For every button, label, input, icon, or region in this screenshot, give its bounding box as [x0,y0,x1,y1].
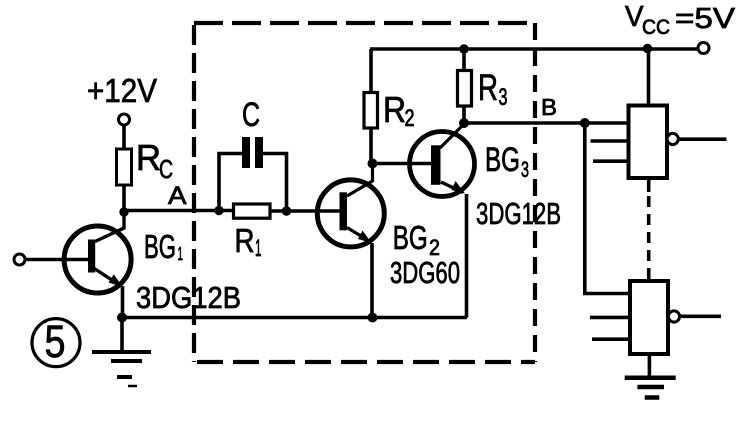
label BG2 [393,219,440,260]
dashed link U1 to U2 [647,178,651,281]
wire node B [464,121,628,125]
transistor BG1 [64,211,131,318]
terminal +12V [119,114,130,125]
gate U2 [590,281,721,354]
input terminal (BG1 base) [14,254,25,265]
junction R1/C right [282,206,291,215]
svg-text:3DG12B: 3DG12B [476,196,561,231]
junction BG2 emitter / rail [368,313,378,323]
junction R1/C left [214,206,223,215]
junction node B branch [580,118,590,128]
svg-text:BG: BG [393,219,428,256]
transistor BG3 [410,124,475,318]
label RC [136,137,173,184]
wire input to BG1 base [25,258,88,262]
label R2 [383,89,415,132]
ground (BG1) [92,318,151,387]
resistor RC [117,149,132,185]
bottom rail wire [122,316,467,320]
svg-text:R: R [383,89,406,130]
junction R3 bottom / BG3 collector / node B [459,118,469,128]
junction R2/BG2 collector/BG3 base [368,159,378,169]
label BG3 [485,141,529,182]
capacitor C branch wire right [260,154,287,212]
transistor BG2 [317,164,384,319]
wire node A to R1 [124,209,234,213]
gate U1 [591,106,727,179]
label R1 [235,222,262,262]
terminal Vcc [698,43,709,54]
svg-text:5: 5 [45,316,66,367]
svg-text:BG: BG [485,141,520,179]
svg-text:2: 2 [405,105,415,132]
wire R2 to junction [369,128,373,164]
wire +12V terminal to RC [122,125,126,149]
resistor R1 [234,204,271,218]
label R3 [478,67,508,111]
dashed box (circuit module outline) [194,23,535,362]
svg-text:R: R [235,222,255,259]
svg-text:1: 1 [178,244,184,264]
wire R1 to BG2 base [270,209,340,213]
svg-text:B: B [541,94,557,120]
svg-text:=5V: =5V [675,3,736,35]
wire B branch to U2 [585,123,630,294]
svg-text:C: C [159,154,173,184]
wire R3 to node B junction [462,105,466,123]
svg-text:BG: BG [144,228,176,265]
capacitor C branch wire left [219,154,242,211]
resistor R3 [458,71,472,107]
Vcc rail wire [370,47,698,51]
label BG1 [144,228,183,265]
node A junction [119,207,128,216]
svg-text:R: R [478,67,498,108]
resistor R2 [364,93,378,129]
ground (U2) [625,378,676,398]
svg-text:+12V: +12V [87,72,157,109]
wire rail to R3 [462,49,466,71]
capacitor C [242,137,263,168]
label Vcc=5V [625,1,736,39]
svg-text:3DG60: 3DG60 [390,255,460,290]
junction R3 top [459,44,469,54]
svg-text:R: R [136,137,161,178]
svg-text:1: 1 [255,235,262,262]
svg-text:3DG12B: 3DG12B [136,280,241,315]
junction BG1 emitter / rail [117,313,127,323]
wire gate2 to ground [648,354,652,376]
svg-text:CC: CC [642,16,670,39]
wire junction to BG3 base [373,162,432,166]
figure number 5 [32,316,80,367]
wire Vcc rail to R2 [369,49,373,93]
svg-text:A: A [168,182,187,210]
svg-text:C: C [242,96,260,134]
svg-text:3: 3 [521,157,529,182]
wire gate1 top pin [647,49,651,107]
svg-text:3: 3 [499,84,508,111]
wire RC to node A [122,185,126,212]
junction Vcc rail / gate1 top [643,44,653,54]
